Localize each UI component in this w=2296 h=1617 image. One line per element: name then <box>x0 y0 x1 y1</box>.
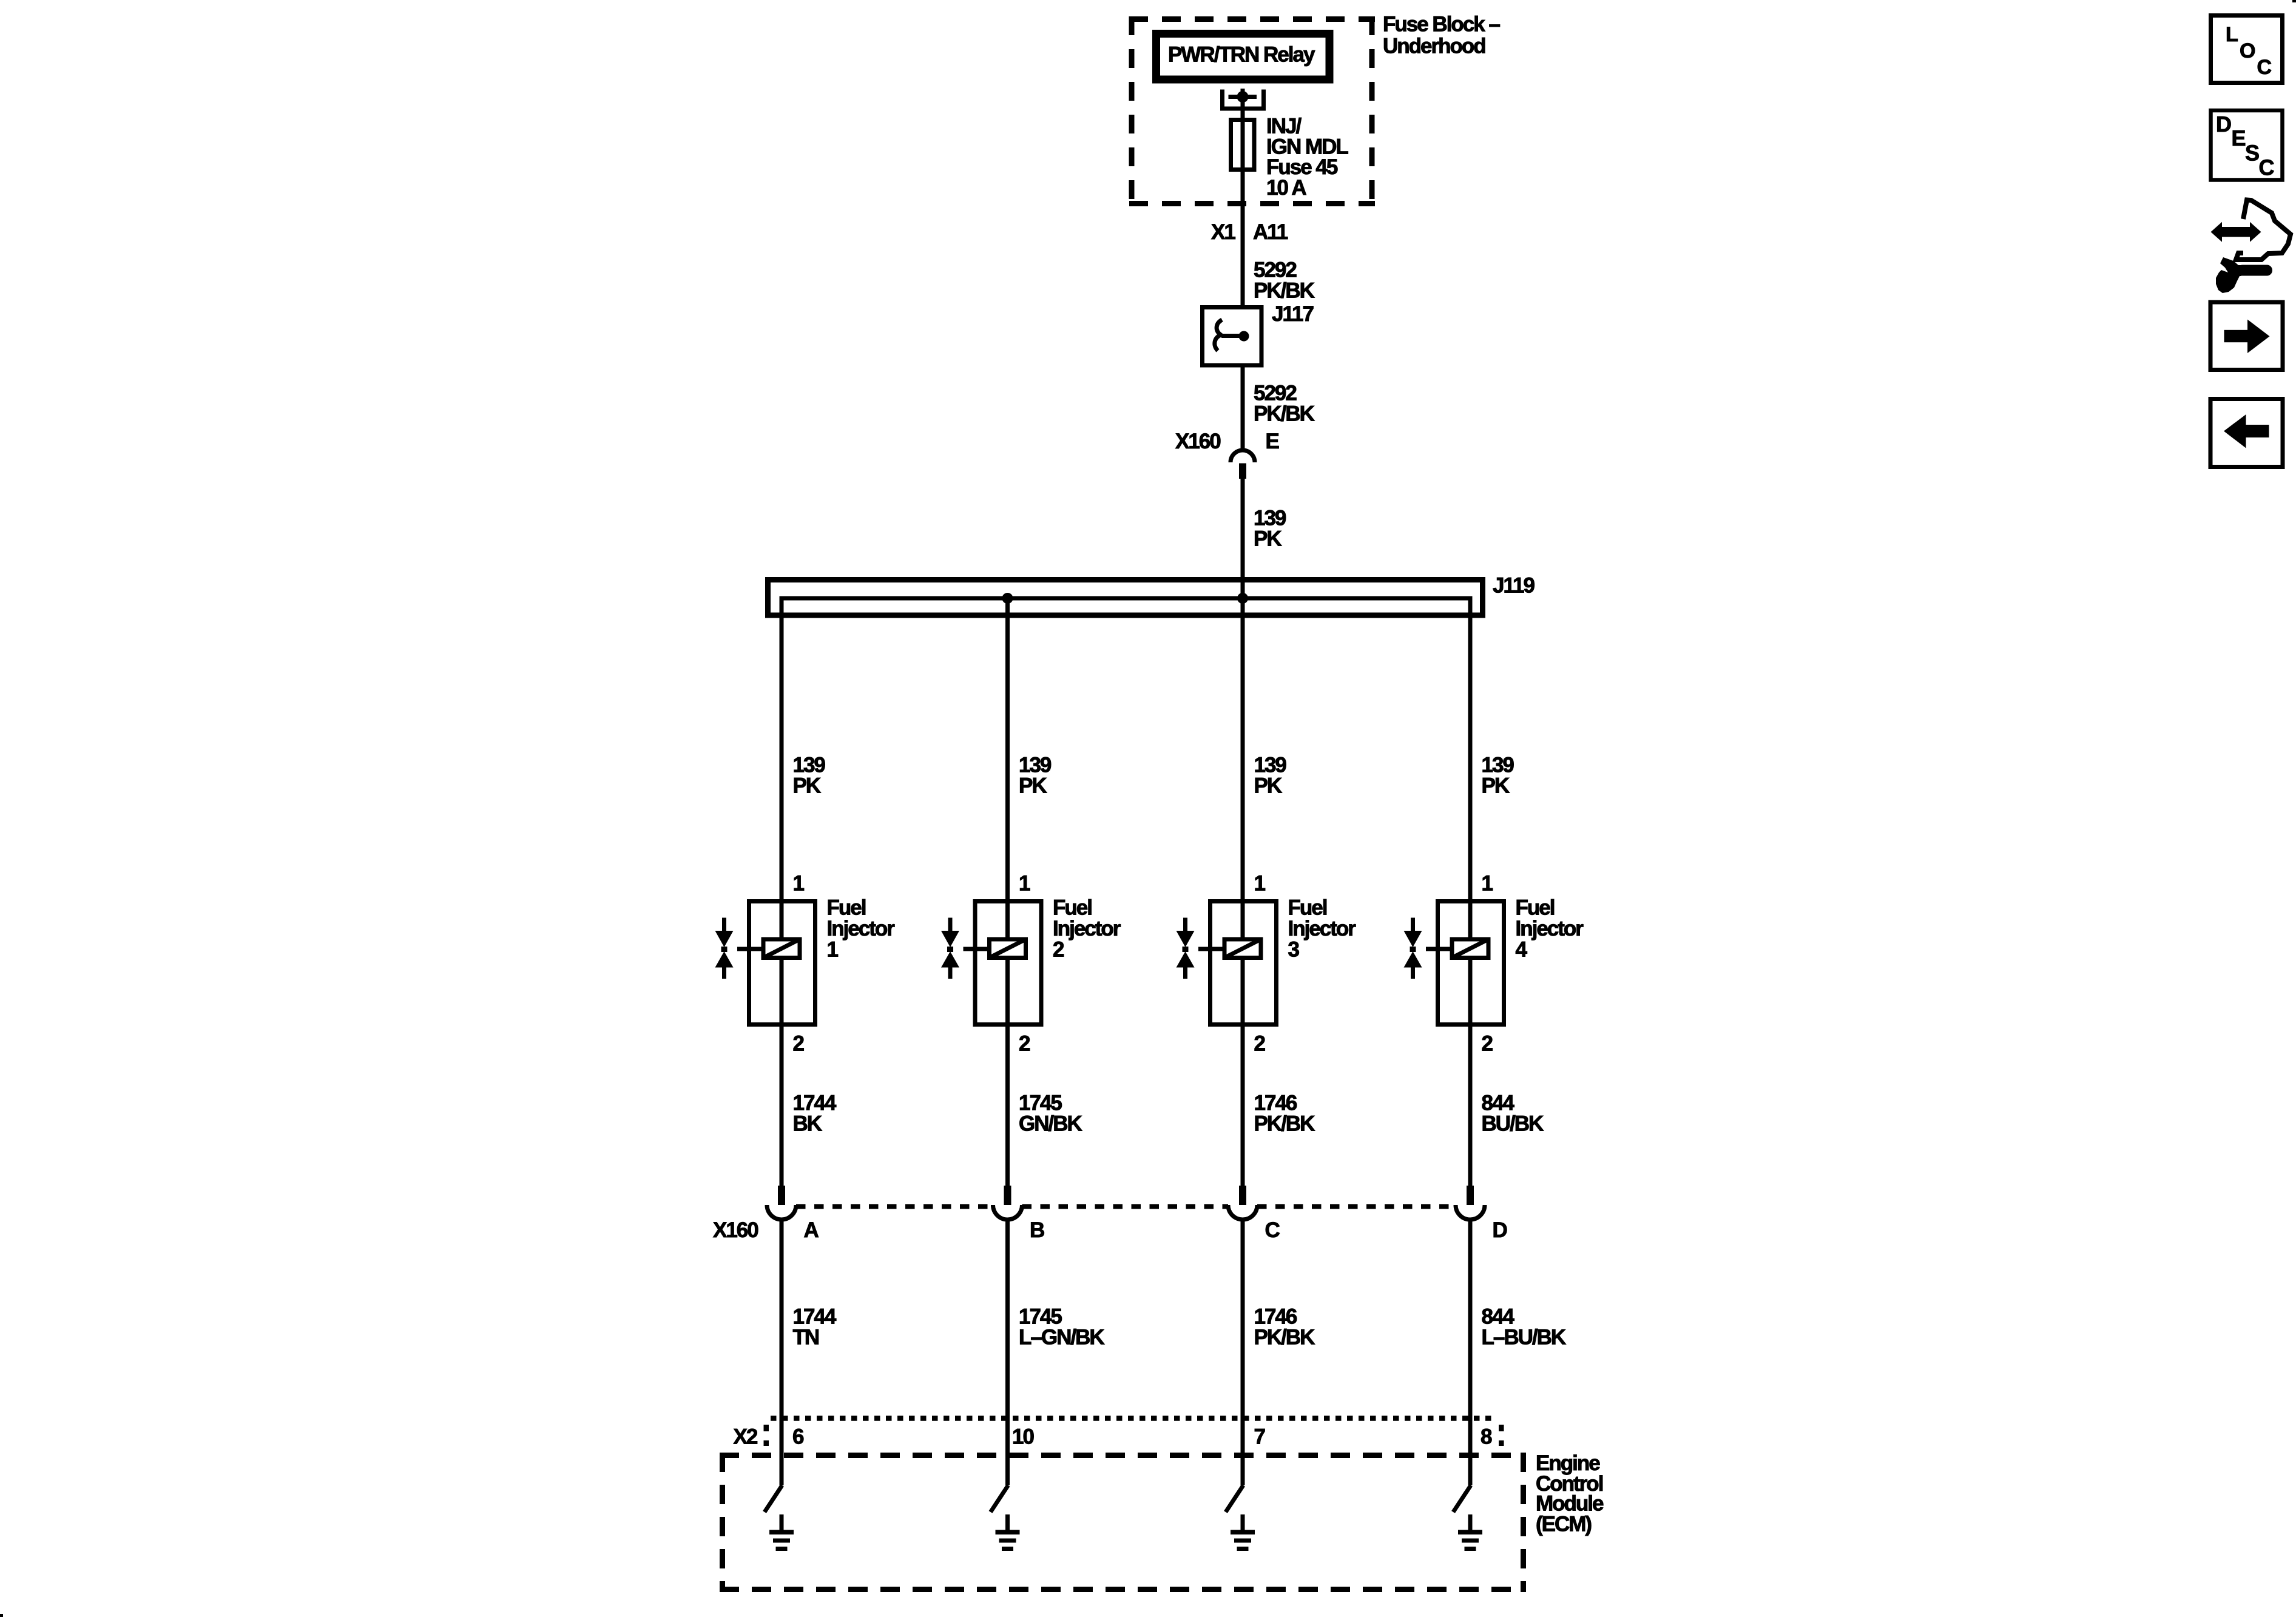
label: Engine Control Module (ECM) <box>1536 1451 1604 1536</box>
ground (injector 4 low side) <box>1458 1514 1482 1551</box>
svg-text:2: 2 <box>1482 1032 1493 1056</box>
svg-text:A: A <box>804 1218 819 1242</box>
svg-text:Injector: Injector <box>1288 917 1357 940</box>
label: J119 <box>1493 574 1535 598</box>
label: wire 139 PK (injector 3) <box>1254 754 1287 798</box>
connector X160 row dashed line <box>796 1204 1456 1209</box>
ECM driver switch for injector 4 <box>1453 1485 1471 1512</box>
svg-text:L–BU/BK: L–BU/BK <box>1482 1326 1566 1349</box>
wire: 139 PK from J119 to fuel injector 1 <box>780 596 784 902</box>
fuel injector 1 (box) <box>749 902 815 1025</box>
label: wire 1744 BK <box>793 1092 837 1136</box>
svg-text:D: D <box>2216 112 2231 137</box>
junction dot: bus to injector 2 wire <box>1002 593 1013 604</box>
wire: injector 4 to connector X160 (844 BU/BK) <box>1468 1027 1473 1186</box>
svg-text:Injector: Injector <box>1516 917 1584 940</box>
label: Fuel Injector 2 <box>1053 896 1121 962</box>
wire: injector 1 to connector X160 (1744 BK) <box>780 1027 784 1186</box>
svg-text:E: E <box>1266 430 1279 453</box>
svg-text:A11: A11 <box>1253 220 1288 244</box>
connector X2 left tick <box>764 1425 769 1446</box>
fuel injector 4 (box) <box>1438 902 1504 1025</box>
svg-text:PK: PK <box>793 774 821 798</box>
ECM driver switch for injector 3 <box>1226 1485 1243 1512</box>
fuel injector 2 pin 2 label <box>1019 1032 1030 1056</box>
icon: service info (double arrow) <box>2211 222 2261 242</box>
svg-text:L–GN/BK: L–GN/BK <box>1019 1326 1104 1349</box>
svg-text:PK/BK: PK/BK <box>1254 402 1315 426</box>
svg-text:BU/BK: BU/BK <box>1482 1112 1544 1136</box>
wire: injector 2 to connector X160 (1745 GN/BK) <box>1005 1027 1010 1186</box>
svg-text:Injector: Injector <box>827 917 896 940</box>
connector X160 pin C (pin and socket) <box>1228 1186 1257 1220</box>
fuel injector 3 pin 2 label <box>1254 1032 1266 1056</box>
fuel injector 2 coil <box>964 902 1026 1027</box>
svg-text:C: C <box>2257 56 2272 79</box>
svg-text:PWR/TRN Relay: PWR/TRN Relay <box>1168 43 1315 67</box>
fuel injector 3 pin 1 label <box>1254 872 1266 896</box>
junction dot: bus to feed wire <box>1237 593 1248 604</box>
icon: back arrow box <box>2210 399 2283 467</box>
label: wire 1746 PK/BK <box>1254 1305 1315 1349</box>
svg-text:Fuse Block –: Fuse Block – <box>1383 13 1500 36</box>
svg-text:D: D <box>1493 1218 1507 1242</box>
ground (injector 2 low side) <box>996 1514 1020 1551</box>
svg-text:C: C <box>2259 155 2275 180</box>
fuel injector 1 pin 2 label <box>793 1032 805 1056</box>
wire: 139 PK from J119 to fuel injector 4 <box>1468 596 1473 902</box>
svg-text:Fuel: Fuel <box>1053 896 1092 920</box>
connector X160 pin E labels <box>1175 430 1279 453</box>
svg-text:X160: X160 <box>713 1218 758 1242</box>
label: wire 1744 TN <box>793 1305 837 1349</box>
relay PWR/TRN Relay (box) <box>1156 34 1330 80</box>
label: Fuel Injector 3 <box>1288 896 1357 962</box>
wire: J117 to connector X160-E <box>1241 365 1245 450</box>
fuel injector 3 coil <box>1198 902 1261 1027</box>
svg-text:1: 1 <box>1254 872 1266 896</box>
icon: DESC box <box>2211 110 2283 180</box>
label: wire 139 PK (injector 2) <box>1019 754 1052 798</box>
fuel injector 4 coil <box>1426 902 1488 1027</box>
icon: LOC box <box>2211 16 2283 83</box>
svg-text:2: 2 <box>1053 938 1064 962</box>
svg-text:4: 4 <box>1516 938 1528 962</box>
svg-text:X2: X2 <box>734 1425 758 1449</box>
splice J117 (box with crimp symbol) <box>1203 308 1262 366</box>
svg-text:Underhood: Underhood <box>1383 35 1485 58</box>
svg-text:X160: X160 <box>1175 430 1221 453</box>
label: wire 139 PK (injector 4) <box>1482 754 1514 798</box>
wire: injector 3 to connector X160 (1746 PK/BK) <box>1241 1027 1245 1186</box>
fuel injector 4 pin 1 label <box>1482 872 1493 896</box>
svg-text:2: 2 <box>793 1032 805 1056</box>
connector X2 right tick <box>1499 1425 1504 1446</box>
svg-text:(ECM): (ECM) <box>1536 1513 1591 1536</box>
label: wire 139 PK (injector 1) <box>793 754 826 798</box>
svg-text:J117: J117 <box>1272 302 1313 326</box>
connector X2 pin 6 label <box>792 1425 804 1449</box>
svg-text:2: 2 <box>1254 1032 1266 1056</box>
wire: relay to fuse (inside fuse block) <box>1241 97 1245 172</box>
svg-text:10: 10 <box>1012 1425 1034 1449</box>
wire: X160-D to ECM (844) <box>1468 1220 1473 1485</box>
label: Fuse Block - Underhood <box>1383 13 1500 58</box>
svg-text:J119: J119 <box>1493 574 1535 598</box>
label: wire 1745 L–GN/BK <box>1019 1305 1104 1349</box>
svg-text:1: 1 <box>1019 872 1030 896</box>
svg-text:7: 7 <box>1254 1425 1265 1449</box>
connector X2 pin 8 label <box>1481 1425 1492 1449</box>
svg-text:PK/BK: PK/BK <box>1254 1326 1315 1349</box>
svg-text:1: 1 <box>793 872 805 896</box>
icon: service info (wrench) <box>2216 257 2267 293</box>
svg-text:1: 1 <box>1482 872 1493 896</box>
label: wire 844 BU/BK <box>1482 1092 1544 1136</box>
svg-text:2: 2 <box>1019 1032 1030 1056</box>
svg-text:PK: PK <box>1254 774 1282 798</box>
label: Fuel Injector 1 <box>827 896 896 962</box>
svg-text:PK: PK <box>1019 774 1047 798</box>
svg-text:L: L <box>2226 23 2238 46</box>
svg-text:Fuel: Fuel <box>827 896 866 920</box>
svg-text:3: 3 <box>1288 938 1300 962</box>
svg-text:C: C <box>1265 1218 1280 1242</box>
svg-text:GN/BK: GN/BK <box>1019 1112 1082 1136</box>
svg-text:Fuel: Fuel <box>1516 896 1555 920</box>
label: X2 <box>734 1425 758 1449</box>
fuel injector 2 (box) <box>975 902 1041 1025</box>
connector X2 pin 10 label <box>1012 1425 1034 1449</box>
wire: X160-A to ECM (1744) <box>780 1220 784 1485</box>
connector X160 pin D label <box>1493 1218 1507 1242</box>
fuel injector 4 nozzle valve symbol <box>1404 918 1422 979</box>
fuel injector 1 nozzle valve symbol <box>715 918 734 979</box>
svg-text:PK: PK <box>1254 527 1281 551</box>
fuel injector 1 pin 1 label <box>793 872 805 896</box>
label: wire 1746 PK/BK <box>1254 1092 1315 1136</box>
label: PWR/TRN Relay <box>1168 43 1315 67</box>
fuse block - underhood (dashed outline) <box>1129 16 1375 206</box>
splice pack J119 (outer box) <box>768 580 1483 616</box>
connector X160 pin D (pin and socket) <box>1456 1186 1485 1220</box>
svg-text:PK/BK: PK/BK <box>1254 279 1315 303</box>
svg-text:BK: BK <box>793 1112 822 1136</box>
svg-text:1: 1 <box>827 938 839 962</box>
svg-text:PK: PK <box>1482 774 1510 798</box>
wire: X160-C to ECM (1746) <box>1241 1220 1245 1485</box>
connector X160 pin B (pin and socket) <box>993 1186 1022 1220</box>
svg-text:8: 8 <box>1481 1425 1492 1449</box>
wire: 139 PK from J119 to fuel injector 2 <box>1005 598 1010 902</box>
connector X1 pin A11 labels <box>1211 220 1288 244</box>
svg-text:Fuel: Fuel <box>1288 896 1327 920</box>
fuel injector 2 nozzle valve symbol <box>941 918 959 979</box>
wire: X160-E to splice pack J119 (139 PK) <box>1241 479 1245 598</box>
label: Fuel Injector 4 <box>1516 896 1584 962</box>
page mark (bottom-left) <box>0 1614 3 1617</box>
svg-text:6: 6 <box>792 1425 804 1449</box>
connector X160 pin B label <box>1030 1218 1044 1242</box>
fuel injector 3 nozzle valve symbol <box>1177 918 1195 979</box>
label: wire 5292 PK/BK (lower) <box>1254 382 1315 426</box>
svg-text:E: E <box>2232 126 2246 150</box>
ground (injector 3 low side) <box>1231 1514 1255 1551</box>
fuel injector 1 coil <box>737 902 800 1027</box>
wire: X1-A11 to splice J117 <box>1241 262 1245 308</box>
svg-text:O: O <box>2240 39 2255 62</box>
icon: next arrow box <box>2210 302 2283 370</box>
svg-text:B: B <box>1030 1218 1044 1242</box>
fuel injector 2 pin 1 label <box>1019 872 1030 896</box>
icon: service info (car outline) <box>2236 200 2291 260</box>
ECM driver switch for injector 2 <box>991 1485 1008 1512</box>
connector X160 pin A label <box>804 1218 819 1242</box>
svg-text:Injector: Injector <box>1053 917 1121 940</box>
connector X160 pin A (pin and socket) <box>767 1186 796 1220</box>
svg-text:10 A: 10 A <box>1266 176 1306 200</box>
label: INJ/ IGN MDL Fuse 45 10 A <box>1266 115 1348 200</box>
label: wire 5292 PK/BK (upper) <box>1254 258 1315 303</box>
label: wire 139 PK (feed) <box>1254 507 1286 551</box>
label: wire 844 L–BU/BK <box>1482 1305 1566 1349</box>
wire: 139 PK from J119 to fuel injector 3 <box>1241 479 1245 902</box>
relay contact bracket <box>1220 89 1266 111</box>
connector X160 pin C label <box>1265 1218 1280 1242</box>
splice pack J119 bus bar <box>782 596 1470 601</box>
connector X2 dotted line <box>771 1416 1497 1421</box>
wire: fuse to connector X1-A11 <box>1241 170 1245 262</box>
fuel injector 4 pin 2 label <box>1482 1032 1493 1056</box>
ground (injector 1 low side) <box>769 1514 794 1551</box>
page mark (top-right) <box>2292 0 2296 2</box>
connector X160-E (arc and pin) <box>1231 450 1255 479</box>
wire: X160-B to ECM (1745) <box>1005 1220 1010 1485</box>
ECM driver switch for injector 1 <box>765 1485 782 1512</box>
svg-text:TN: TN <box>793 1326 819 1349</box>
svg-text:PK/BK: PK/BK <box>1254 1112 1315 1136</box>
engine control module ECM (dashed box) <box>720 1453 1526 1592</box>
fuse F45 INJ/IGN MDL 10A <box>1231 120 1255 170</box>
connector X2 pin 7 label <box>1254 1425 1265 1449</box>
svg-text:X1: X1 <box>1211 220 1235 244</box>
label: wire 1745 GN/BK <box>1019 1092 1082 1136</box>
svg-text:S: S <box>2245 141 2259 166</box>
fuel injector 3 (box) <box>1210 902 1277 1025</box>
label: X160 (bottom connector) <box>713 1218 758 1242</box>
label: J117 <box>1272 302 1313 326</box>
